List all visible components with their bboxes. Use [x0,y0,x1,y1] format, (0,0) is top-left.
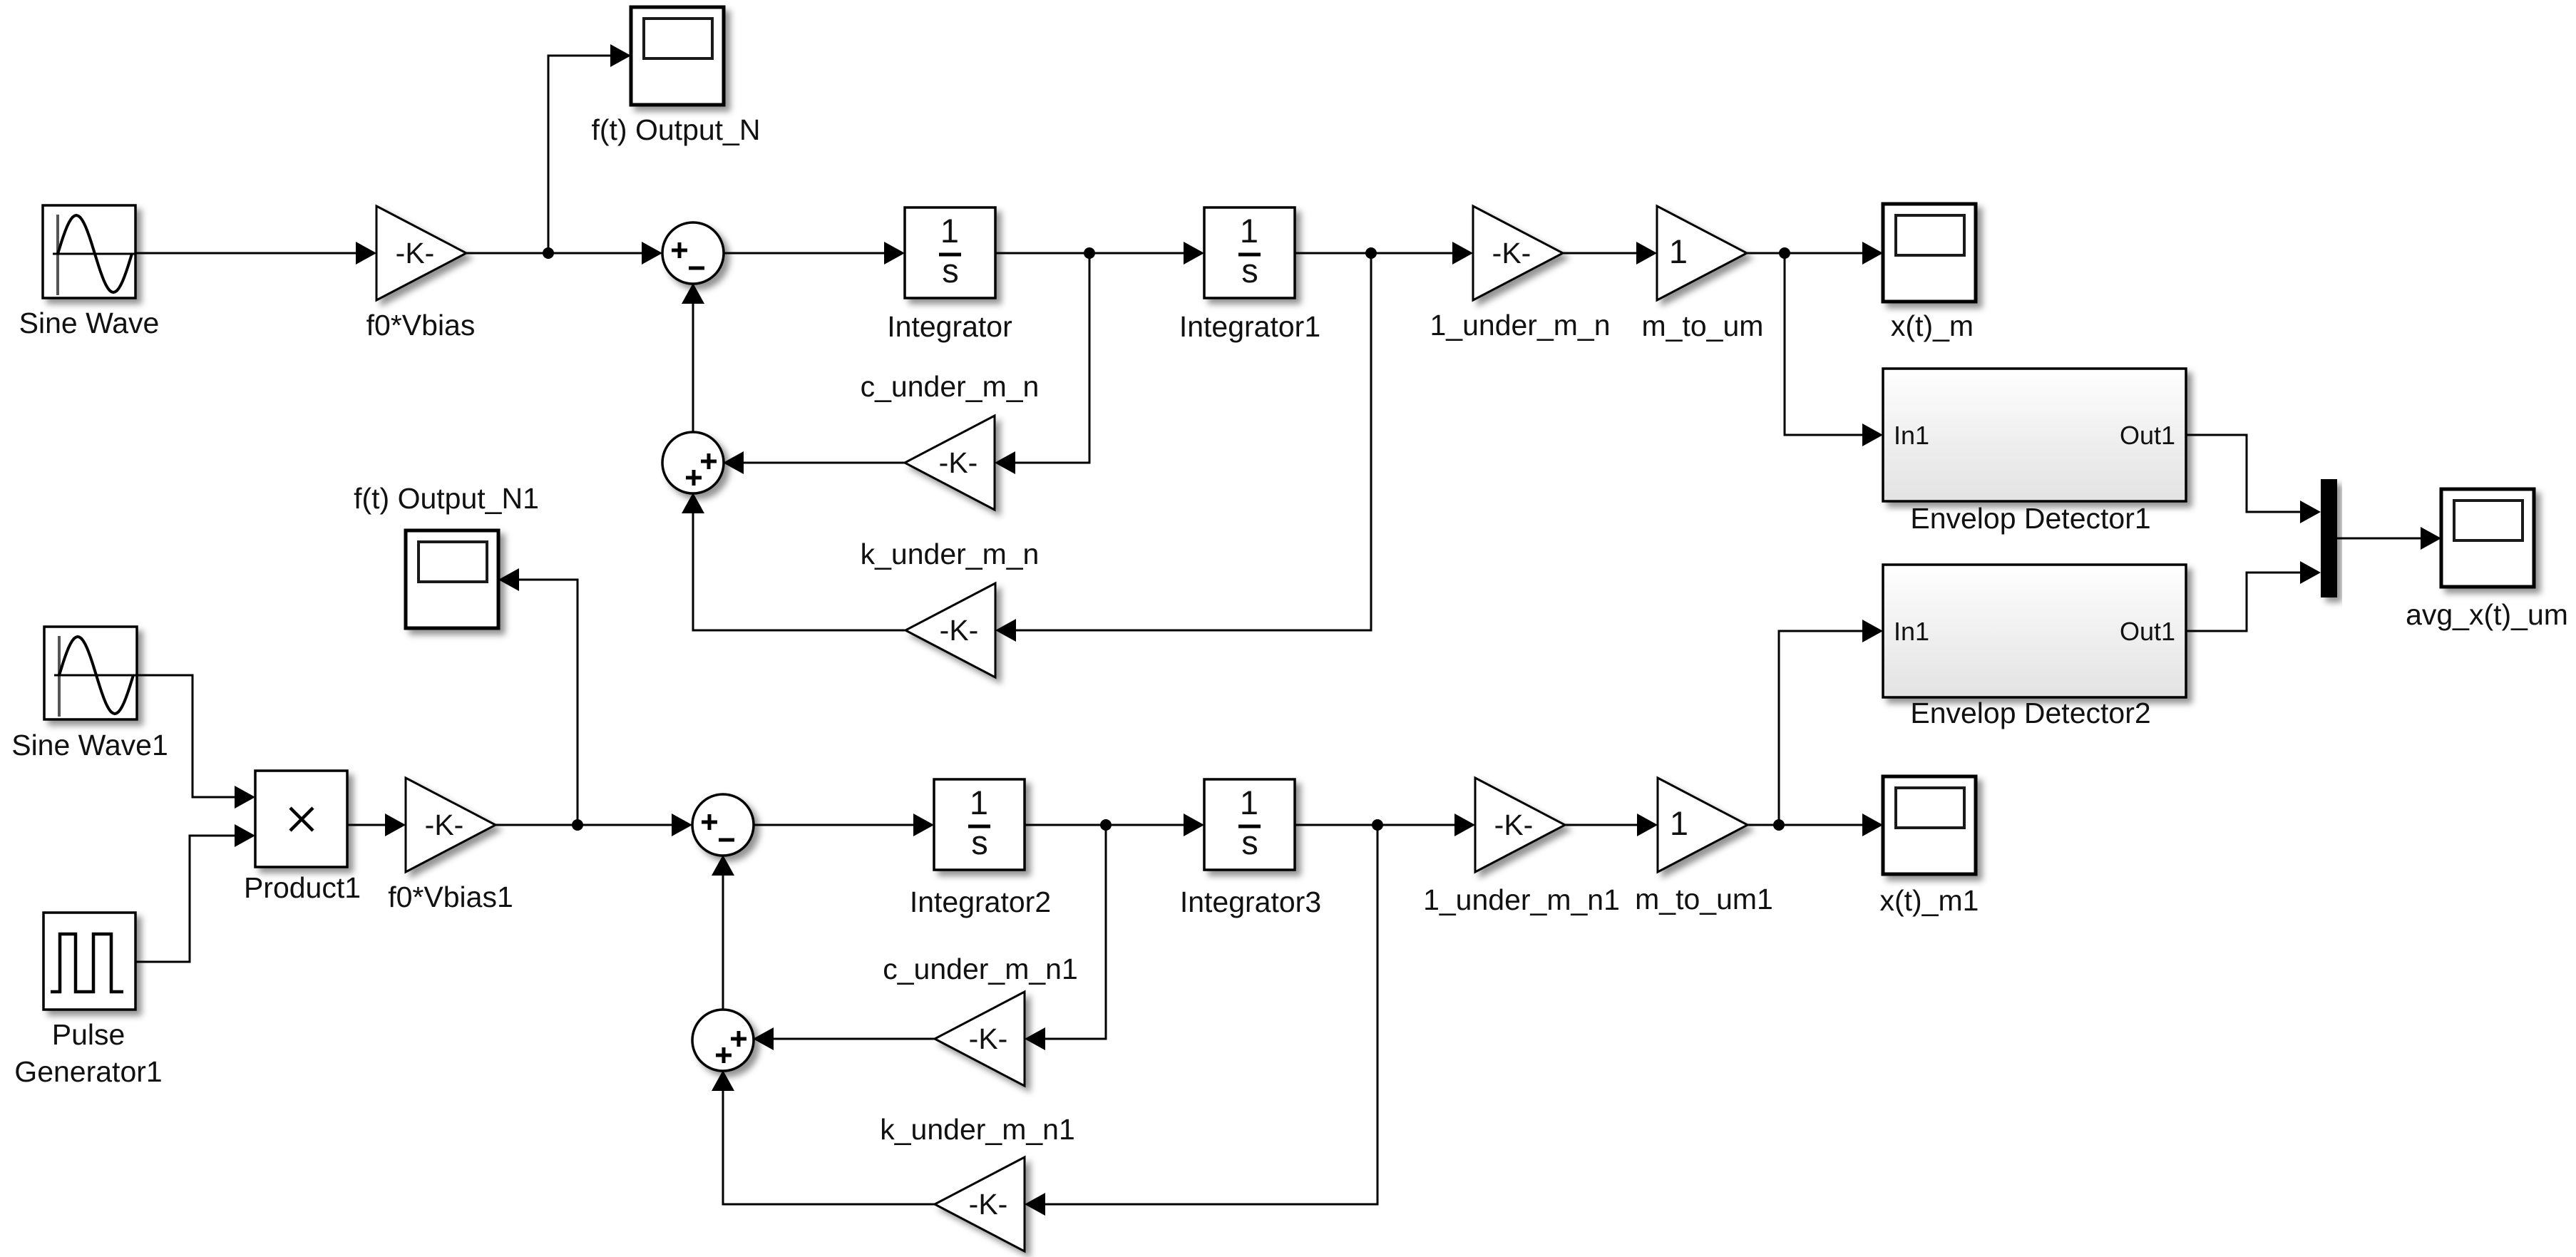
svg-text:Pulse: Pulse [52,1018,125,1051]
svg-text:-K-: -K- [425,809,464,841]
svg-text:-K-: -K- [396,237,435,270]
svg-text:m_to_um1: m_to_um1 [1635,883,1773,915]
sum Sum1 feedback adder [662,432,724,493]
gain m_to_um [1657,206,1747,300]
wire Integrator1 to 1_under_m_n [1295,242,1473,265]
svg-text:Out1: Out1 [2120,421,2175,450]
wire Integrator junction down to c_under_m_n [995,253,1089,474]
wire m_to_um1 to scope x(t)_m1 [1748,814,1883,836]
source block Pulse Generator1 [43,913,135,1010]
svg-text:s: s [1241,824,1258,861]
wire Sine Wave1 to Product1 [137,675,255,809]
wire f0*Vbias to Sum [466,242,662,265]
wire k_under_m_n to Sum1 south [682,493,905,630]
gain 1_under_m_n1 [1475,778,1565,872]
svg-text:s: s [942,252,959,289]
wire Envelop Detector1 Out1 to Mux [2186,435,2321,523]
wire Integrator3 to 1_under_m_n1 [1295,814,1475,836]
wire Integrator1 junction down to k_under_m_n [995,253,1371,642]
integrator Integrator3 [1204,779,1295,870]
gain c_under_m_n [905,416,995,510]
integrator Integrator [905,207,995,298]
svg-text:Integrator: Integrator [887,310,1012,343]
wire Integrator3 junction down to k_under_m_n1 [1025,825,1377,1216]
gain 1_under_m_n [1473,206,1563,300]
source block Sine Wave1 [44,627,137,719]
wire Sum to Integrator [723,242,905,265]
gain k_under_m_n [905,583,995,677]
subsystem Envelop Detector1 [1883,369,2186,501]
wire branch to scope Output_N [548,44,631,253]
svg-text:avg_x(t)_um: avg_x(t)_um [2406,598,2568,631]
svg-text:-K-: -K- [1492,237,1531,270]
wire m_to_um to scope x(t)_m [1747,242,1883,265]
gain k_under_m_n1 [935,1157,1025,1251]
wire Integrator2 junction down to c_under_m_n1 [1025,825,1106,1050]
svg-text:1: 1 [1240,784,1258,821]
svg-text:s: s [1241,252,1258,289]
wire Integrator to Integrator1 [995,242,1204,265]
svg-text:k_under_m_n1: k_under_m_n1 [880,1113,1075,1146]
svg-text:1: 1 [1670,804,1688,842]
svg-text:Sine Wave1: Sine Wave1 [11,729,168,761]
integrator Integrator1 [1204,207,1295,298]
svg-text:-K-: -K- [969,1022,1008,1055]
integrator Integrator2 [934,779,1025,870]
wire c_under_m_n to Sum1 east [723,451,905,474]
subsystem Envelop Detector2 [1883,565,2186,697]
wire 1_under_m_n1 to m_to_um1 [1565,814,1658,836]
svg-text:-K-: -K- [939,446,978,479]
wire Sum1 up to Sum south [682,283,704,432]
gain c_under_m_n1 [935,992,1025,1086]
wire Pulse Generator1 to Product1 [135,824,255,962]
sum Sum [662,222,724,284]
svg-text:Out1: Out1 [2120,617,2175,646]
svg-text:x(t)_m: x(t)_m [1891,309,1974,342]
scope f(t) Output_N1 [406,530,498,628]
svg-text:k_under_m_n: k_under_m_n [861,538,1040,570]
product block Product1 [255,771,347,867]
scope x(t)_m [1883,204,1976,302]
svg-text:Integrator2: Integrator2 [910,886,1051,918]
wire c_under_m_n1 to Sum3 east [753,1027,935,1050]
wire Sum2 to Integrator2 [753,814,934,836]
svg-text:c_under_m_n: c_under_m_n [861,370,1040,403]
wire Sum3 up to Sum2 south [712,855,734,1010]
sum Sum3 feedback adder [692,1010,754,1071]
svg-text:-K-: -K- [940,614,979,647]
svg-text:x(t)_m1: x(t)_m1 [1880,884,1979,917]
svg-text:1_under_m_n: 1_under_m_n [1430,309,1610,342]
wire Envelop Detector2 Out1 to Mux [2186,561,2321,631]
wire x(t)_m1 junction up to Envelop Detector2 [1779,620,1883,825]
svg-text:f0*Vbias1: f0*Vbias1 [388,881,513,913]
svg-text:Sine Wave: Sine Wave [19,307,160,339]
svg-text:Integrator3: Integrator3 [1180,886,1321,918]
wire 1_under_m_n to m_to_um [1563,242,1657,265]
wire Integrator2 to Integrator3 [1025,814,1204,836]
svg-text:c_under_m_n1: c_under_m_n1 [883,953,1078,985]
svg-text:1: 1 [940,212,959,250]
scope avg_x(t)_um [2441,489,2534,587]
svg-text:In1: In1 [1894,617,1929,646]
sum Sum2 [692,794,754,856]
svg-text:Envelop Detector1: Envelop Detector1 [1910,502,2150,535]
wire f0*Vbias1 to Sum2 [496,814,692,836]
wire Product1 to f0*Vbias1 [347,814,406,836]
scope f(t) Output_N [631,7,724,105]
svg-text:Generator1: Generator1 [14,1055,162,1088]
wire Sine Wave to f0*Vbias [135,242,376,265]
svg-text:f0*Vbias: f0*Vbias [366,309,476,342]
source block Sine Wave [43,205,135,298]
mux Mux [2321,479,2337,597]
svg-text:m_to_um: m_to_um [1642,309,1764,342]
gain m_to_um1 [1658,778,1748,872]
svg-text:1: 1 [1240,212,1258,250]
wire x(t)_m junction down to Envelop Detector1 [1785,253,1883,446]
svg-text:1: 1 [1669,232,1688,270]
svg-text:-K-: -K- [1494,809,1534,841]
svg-text:s: s [971,824,988,861]
svg-text:1_under_m_n1: 1_under_m_n1 [1423,883,1620,916]
gain f0*Vbias [376,206,466,300]
svg-text:-K-: -K- [969,1188,1008,1221]
scope x(t)_m1 [1883,776,1976,874]
svg-text:Envelop Detector2: Envelop Detector2 [1910,697,2150,729]
wire k_under_m_n1 to Sum3 south [712,1070,935,1204]
svg-text:f(t) Output_N: f(t) Output_N [592,113,761,146]
svg-text:In1: In1 [1894,421,1929,450]
wire branch to scope Output_N1 [498,568,578,825]
svg-text:f(t) Output_N1: f(t) Output_N1 [354,482,539,515]
gain f0*Vbias1 [406,778,496,872]
svg-text:1: 1 [970,784,988,821]
svg-text:Product1: Product1 [244,871,361,904]
wire Mux to scope avg_x(t)_um [2337,527,2441,550]
svg-text:Integrator1: Integrator1 [1179,310,1320,343]
